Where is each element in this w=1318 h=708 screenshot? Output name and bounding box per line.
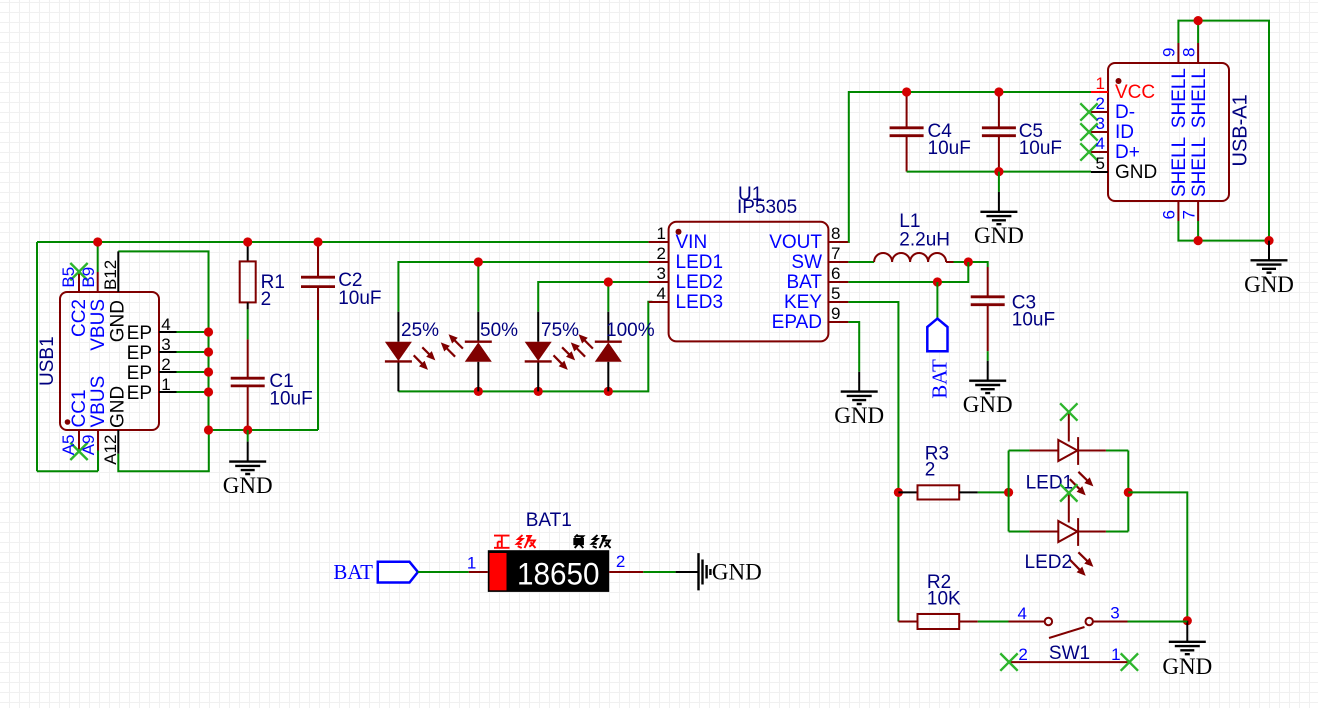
- wire B12 to EP bus: [118, 251, 208, 430]
- pin name SHELL 8: [1189, 68, 1210, 128]
- pin 7 number: [1180, 210, 1199, 219]
- C2 refdes: [338, 270, 362, 291]
- wire LED d drop: [607, 282, 609, 312]
- junction dot shell gnd corner: [1264, 236, 1273, 245]
- LED 25% emission arrows: [414, 347, 432, 366]
- C5 refdes: [1019, 121, 1043, 142]
- LED1 refdes: [1026, 472, 1074, 493]
- junction dot top wire at B9: [93, 237, 102, 246]
- LED2 leads: [1030, 531, 1106, 533]
- pin name CC2: [69, 299, 90, 337]
- no-connect X LED2 pin: [1060, 484, 1077, 501]
- svg-text:B12: B12: [101, 260, 120, 290]
- switch SW1 pin3 stub: [1093, 621, 1128, 623]
- L1 refdes: [899, 211, 920, 232]
- pin 4 number: [1018, 604, 1027, 623]
- svg-text:GND: GND: [974, 223, 1024, 248]
- pin 8 number: [1180, 48, 1199, 57]
- wire BAT pin6 row: [848, 262, 968, 282]
- resistor R1 top lead: [247, 242, 249, 261]
- pin 1 number: [467, 554, 476, 573]
- pin A5 number: [59, 435, 78, 456]
- wire SW pin7 to L1: [848, 261, 874, 263]
- pin B12 stub: [117, 251, 119, 292]
- svg-text:3: 3: [657, 264, 666, 283]
- pin name VIN: [676, 232, 708, 253]
- R3 value 2: [925, 460, 936, 481]
- svg-text:9: 9: [831, 304, 840, 323]
- pin 1 number: [1096, 74, 1105, 93]
- svg-text:4: 4: [1096, 134, 1105, 153]
- svg-text:SW1: SW1: [1049, 643, 1090, 664]
- capacitor C3 plates: [971, 297, 1005, 305]
- net label BAT: [333, 560, 373, 584]
- svg-text:10uF: 10uF: [338, 288, 381, 309]
- pin A12 number: [101, 435, 120, 465]
- svg-text:VCC: VCC: [1115, 82, 1155, 103]
- capacitor C4 top lead: [906, 92, 908, 128]
- C3 refdes: [1012, 293, 1036, 314]
- C4 refdes: [928, 121, 953, 142]
- svg-text:SW: SW: [791, 252, 822, 273]
- wire shell bottom: [1178, 221, 1269, 241]
- SW1 pin3 circle: [1086, 618, 1093, 625]
- R3 refdes: [925, 444, 949, 465]
- svg-text:2: 2: [925, 460, 936, 481]
- svg-text:2.2uH: 2.2uH: [899, 230, 950, 251]
- C2 value: [338, 288, 381, 309]
- pin name LED3: [676, 292, 724, 313]
- label zhengji positive: [494, 535, 536, 548]
- C1 value: [269, 389, 312, 410]
- pin name GND bottom: [108, 386, 129, 428]
- pin name VBUS bottom: [88, 376, 109, 428]
- pin 3 ID stub: [1091, 131, 1108, 133]
- wire LED b drop: [477, 262, 479, 312]
- svg-text:SHELL: SHELL: [1169, 68, 1190, 128]
- svg-text:1: 1: [1111, 645, 1120, 664]
- wire C5 bottom to ground: [998, 172, 1000, 192]
- C4 value: [928, 138, 971, 159]
- pin 2 number: [1096, 94, 1105, 113]
- LED 50% triangle up: [465, 342, 492, 362]
- pin EP3 stub: [159, 351, 177, 353]
- capacitor C5 bottom lead: [998, 136, 1000, 172]
- pin 9 number: [831, 304, 840, 323]
- pin name CC1: [69, 389, 90, 427]
- pin 1 number: [1111, 645, 1120, 664]
- svg-text:7: 7: [1180, 210, 1199, 219]
- pin name EP1: [127, 383, 152, 404]
- pin A9 stub: [97, 430, 99, 451]
- pin name GND5: [1115, 162, 1157, 183]
- wire bottom left to A9: [37, 470, 98, 472]
- wire BAT port to battery: [418, 571, 469, 573]
- svg-text:A9: A9: [79, 435, 98, 456]
- svg-text:ID: ID: [1115, 122, 1134, 143]
- pin name EP4: [127, 323, 152, 344]
- svg-text:A5: A5: [59, 435, 78, 456]
- wire R2 to SW1: [978, 621, 1009, 623]
- capacitor C1 bottom lead: [247, 386, 249, 430]
- wire bridge left vertical: [1008, 451, 1010, 532]
- no-connect X on A5: [70, 443, 87, 460]
- svg-text:USB1: USB1: [37, 336, 58, 386]
- pin B5 stub: [78, 272, 80, 292]
- wire A9 down to bottom wire: [97, 451, 99, 472]
- LED1 cathode bar: [1077, 437, 1079, 465]
- LED2 emission arrows: [1070, 552, 1090, 572]
- junction dot R1 top: [243, 237, 252, 246]
- resistor R3 right lead: [959, 491, 978, 493]
- LED1 leads: [1030, 450, 1106, 452]
- junction dot bridge right: [1124, 488, 1133, 497]
- wire battery to right ground: [643, 571, 675, 573]
- svg-text:LED2: LED2: [676, 272, 724, 293]
- pin 3 number: [1096, 114, 1105, 133]
- svg-text:EP: EP: [127, 363, 152, 384]
- wire VBUS top main horizontal to U1 VIN: [37, 241, 649, 243]
- label 100%: [606, 320, 655, 341]
- switch SW1 bottom throw: [1009, 661, 1129, 663]
- wire R3 to LED bridge: [978, 491, 1009, 493]
- svg-text:GND: GND: [834, 403, 884, 428]
- ground GND right of battery rotated: [676, 553, 762, 590]
- no-connect X SW1 pin2: [1000, 653, 1017, 670]
- wire pin8 up: [1197, 21, 1199, 43]
- svg-text:25%: 25%: [401, 320, 439, 341]
- svg-text:LED2: LED2: [1025, 552, 1073, 573]
- wire KEY pin5 down to R2: [848, 302, 898, 622]
- LED LED1 triangle: [1058, 440, 1077, 461]
- pin 9 stub top: [1177, 43, 1179, 63]
- svg-text:2: 2: [1096, 94, 1105, 113]
- svg-text:4: 4: [657, 284, 666, 303]
- U1 value IP5305: [737, 197, 797, 218]
- resistor R1 bottom lead: [247, 302, 249, 309]
- pin 2 number: [657, 244, 666, 263]
- pin A12 stub: [117, 430, 119, 454]
- svg-text:100%: 100%: [606, 320, 655, 341]
- junction dot C1 bottom: [243, 425, 252, 434]
- L1 value: [899, 230, 950, 251]
- junction dot sw gnd node: [1183, 616, 1192, 625]
- C3 value: [1012, 310, 1055, 331]
- USB1 refdes: [37, 336, 58, 386]
- pin 7 SW stub: [828, 261, 848, 263]
- svg-text:1: 1: [161, 375, 170, 394]
- wire EP pin3: [177, 351, 209, 353]
- pin B9 stub: [97, 272, 99, 292]
- wire VOUT up to VCC rail: [848, 92, 1091, 242]
- battery BAT1 body: [488, 550, 609, 592]
- svg-text:2: 2: [161, 355, 170, 374]
- svg-text:7: 7: [831, 244, 840, 263]
- svg-text:GND: GND: [1115, 162, 1157, 183]
- LED1 third pin: [1068, 412, 1070, 442]
- pin EP3 number: [161, 335, 170, 354]
- svg-text:GND: GND: [108, 386, 129, 428]
- svg-text:B9: B9: [79, 267, 98, 288]
- pin 7 stub bottom: [1197, 201, 1199, 221]
- wire left vertical: [36, 242, 38, 471]
- LED LED2 triangle: [1058, 521, 1077, 542]
- svg-text:4: 4: [161, 315, 170, 334]
- pin name LED1: [676, 252, 724, 273]
- SW1 lever: [1049, 627, 1085, 638]
- capacitor C3 bottom lead: [987, 305, 989, 352]
- svg-text:2: 2: [261, 289, 272, 310]
- wire bridge to gnd vertical: [1128, 492, 1187, 620]
- svg-text:SHELL: SHELL: [1189, 137, 1210, 197]
- svg-text:LED3: LED3: [676, 292, 724, 313]
- junction dots EP bus: [204, 327, 213, 336]
- svg-text:D+: D+: [1115, 142, 1140, 163]
- pin 6 stub bottom: [1177, 201, 1179, 221]
- junction dot LED d top: [604, 277, 613, 286]
- pin name EPAD: [772, 312, 822, 333]
- pin 3 number: [1110, 604, 1119, 623]
- capacitor C2 bottom lead: [317, 287, 319, 320]
- junction dot KEY R3 tap: [894, 488, 903, 497]
- LED2 cathode bar: [1077, 518, 1079, 546]
- svg-text:BAT1: BAT1: [526, 510, 572, 531]
- ground GND at C1: [223, 430, 273, 498]
- pin name VBUS top: [88, 299, 109, 351]
- pin 7 number: [831, 244, 840, 263]
- LED 100% triangle up: [595, 342, 622, 362]
- no-connect X SW1 pin1: [1121, 653, 1138, 670]
- svg-text:EP: EP: [127, 383, 152, 404]
- pin name VCC: [1115, 82, 1155, 103]
- junction dot pin8 top: [1194, 16, 1203, 25]
- LED2 third pin: [1068, 493, 1070, 523]
- junction dots LED bottom bus: [474, 387, 483, 396]
- svg-text:USB-A1: USB-A1: [1230, 94, 1252, 166]
- junction dot bridge left: [1004, 488, 1013, 497]
- capacitor C2 top lead: [317, 242, 319, 277]
- switch SW1 pin4 stub: [1009, 621, 1045, 623]
- svg-text:B5: B5: [59, 267, 78, 288]
- ground GND at SW1: [1162, 621, 1212, 679]
- wire C3 to ground: [987, 351, 989, 361]
- R2 value 10K: [927, 589, 961, 610]
- pin 2 number: [1018, 645, 1027, 664]
- pin 6 BAT stub: [828, 281, 848, 283]
- capacitor C1 top lead: [247, 339, 249, 378]
- wire LED bottom bus to pin4: [398, 302, 652, 392]
- wire EP bus to C1 C2 bottom: [209, 429, 319, 431]
- pin B5 number: [59, 267, 78, 288]
- svg-text:GND: GND: [108, 300, 129, 342]
- LED 25% triangle down: [385, 342, 412, 362]
- svg-text:75%: 75%: [541, 320, 579, 341]
- connector USB-A1 body: [1108, 63, 1229, 201]
- LED 75% triangle down: [525, 342, 552, 362]
- port BAT vertical: [927, 319, 947, 352]
- wire R1 to C1: [247, 309, 249, 339]
- wire EPAD to ground: [848, 322, 859, 372]
- junction dot C5 bottom: [994, 167, 1003, 176]
- svg-text:BAT: BAT: [333, 560, 373, 584]
- inductor L1: [874, 253, 953, 262]
- ground GND at EPAD: [834, 372, 884, 428]
- svg-text:CC1: CC1: [69, 389, 90, 427]
- svg-text:2: 2: [657, 244, 666, 263]
- svg-text:8: 8: [831, 224, 840, 243]
- ground GND below C3: [963, 361, 1013, 417]
- capacitor C4 bottom lead: [906, 136, 908, 172]
- pin 1 number: [657, 224, 666, 243]
- LED 25% leads: [397, 312, 399, 392]
- capacitor C5 top lead: [998, 92, 1000, 128]
- LED 50% leads: [477, 312, 479, 392]
- pin name D+: [1115, 142, 1140, 163]
- svg-text:SHELL: SHELL: [1169, 137, 1190, 197]
- wire LED1 branch green parts: [1009, 450, 1129, 452]
- ground GND at USB-A1 shell: [1244, 241, 1294, 297]
- svg-text:GND: GND: [1162, 654, 1212, 679]
- pin EP1 stub: [159, 391, 177, 393]
- no-connect X pin 3: [1080, 123, 1097, 140]
- label 50%: [480, 320, 518, 341]
- pin name ID: [1115, 122, 1134, 143]
- label 75%: [541, 320, 579, 341]
- wire EP pin2: [177, 371, 209, 373]
- svg-text:VBUS: VBUS: [88, 376, 109, 428]
- wire LED2 row pin3: [538, 282, 648, 312]
- C1 refdes: [269, 371, 293, 392]
- pin EP2 stub: [159, 371, 177, 373]
- pin name VOUT: [769, 232, 822, 253]
- wire GND bus C4 C5 to USB pin5: [907, 171, 1091, 173]
- pin B12 number: [101, 260, 120, 290]
- svg-text:4: 4: [1018, 604, 1027, 623]
- resistor R3 body: [918, 485, 960, 499]
- svg-text:2: 2: [1018, 645, 1027, 664]
- pin A9 number: [79, 435, 98, 456]
- pin 6 number: [1160, 210, 1179, 219]
- no-connect X LED1 pin: [1060, 403, 1077, 420]
- pin 5 number: [1096, 154, 1105, 173]
- svg-text:8: 8: [1180, 48, 1199, 57]
- wire shell top: [1178, 21, 1269, 241]
- pin 9 number: [1160, 48, 1179, 57]
- svg-text:10uF: 10uF: [1019, 138, 1062, 159]
- svg-text:50%: 50%: [480, 320, 518, 341]
- svg-text:GND: GND: [223, 473, 273, 498]
- pin EP4 stub: [159, 331, 177, 333]
- C5 value: [1019, 138, 1062, 159]
- junction dot SW node: [964, 257, 973, 266]
- pin 8 stub top: [1197, 43, 1199, 63]
- svg-text:9: 9: [1160, 48, 1179, 57]
- svg-text:18650: 18650: [517, 556, 600, 592]
- resistor R2 left lead: [898, 621, 917, 623]
- SW1 refdes: [1049, 643, 1090, 664]
- pin 5 GND stub: [1091, 171, 1108, 173]
- pin 3 LED2 stub: [649, 281, 669, 283]
- pin A5 stub: [78, 430, 80, 451]
- LED 50% emission arrows: [444, 338, 463, 357]
- wire pin7 down: [1197, 221, 1199, 241]
- pin name SHELL 6: [1169, 137, 1190, 197]
- LED 75% emission arrows: [554, 347, 572, 366]
- LED 75% leads: [537, 312, 539, 392]
- LED 100% leads: [607, 312, 609, 392]
- pin 8 number: [831, 224, 840, 243]
- svg-text:KEY: KEY: [784, 292, 822, 313]
- svg-text:1: 1: [467, 554, 476, 573]
- svg-text:5: 5: [831, 284, 840, 303]
- pin name BAT: [786, 272, 822, 293]
- wire SW1 pin3 to gnd node: [1128, 621, 1188, 623]
- SW1 pin4 circle: [1045, 618, 1052, 625]
- pin name KEY: [784, 292, 822, 313]
- wire LED1 row pin2: [398, 262, 648, 312]
- pin 2 number: [616, 552, 625, 571]
- svg-text:BAT: BAT: [928, 359, 952, 399]
- pin 5 number: [831, 284, 840, 303]
- pin name SHELL 7: [1189, 137, 1210, 197]
- no-connect X pin 4: [1080, 143, 1097, 160]
- svg-text:1: 1: [1096, 74, 1105, 93]
- wire L1 to C3 corner: [954, 262, 988, 267]
- pin name D-: [1115, 102, 1135, 123]
- junction dot BAT node: [933, 277, 942, 286]
- svg-text:BAT: BAT: [786, 272, 822, 293]
- svg-text:3: 3: [1110, 604, 1119, 623]
- svg-text:VOUT: VOUT: [769, 232, 822, 253]
- pin 3 number: [657, 264, 666, 283]
- svg-text:1: 1: [657, 224, 666, 243]
- wire EP pin4: [177, 331, 209, 333]
- pin 1 VIN stub: [649, 241, 669, 243]
- resistor R2 right lead: [959, 621, 978, 623]
- svg-text:LED1: LED1: [676, 252, 724, 273]
- label fuji negative: [574, 535, 610, 549]
- svg-text:CC2: CC2: [69, 299, 90, 337]
- svg-text:SHELL: SHELL: [1189, 68, 1210, 128]
- svg-text:VIN: VIN: [676, 232, 708, 253]
- svg-text:EPAD: EPAD: [772, 312, 822, 333]
- svg-text:GND: GND: [963, 392, 1013, 417]
- wire B9 up to top wire: [97, 242, 99, 272]
- battery BAT1 pin1 lead: [469, 571, 488, 573]
- battery BAT1 pin2 lead: [609, 571, 643, 573]
- capacitor C3 top lead: [987, 267, 989, 297]
- svg-text:6: 6: [1160, 210, 1179, 219]
- svg-text:GND: GND: [1244, 272, 1294, 297]
- wire bridge right vertical: [1127, 451, 1129, 532]
- op-amp U1 IP5305 body: [669, 222, 829, 342]
- BAT1 refdes: [526, 510, 572, 531]
- capacitor C5 plates: [982, 128, 1016, 136]
- pin 2 LED1 stub: [649, 261, 669, 263]
- pin 9 EPAD stub: [828, 321, 848, 323]
- pin EP2 number: [161, 355, 170, 374]
- pin 4 number: [657, 284, 666, 303]
- svg-text:IP5305: IP5305: [737, 197, 797, 218]
- U1 refdes: [738, 184, 762, 205]
- pin 4 number: [1096, 134, 1105, 153]
- LED 100% emission arrows: [574, 338, 593, 357]
- net label BAT vertical: [928, 359, 952, 399]
- no-connect X pin 2: [1080, 103, 1097, 120]
- svg-text:A12: A12: [101, 435, 120, 465]
- pin 4 LED3 stub: [649, 301, 669, 303]
- ground GND below C5: [974, 192, 1024, 248]
